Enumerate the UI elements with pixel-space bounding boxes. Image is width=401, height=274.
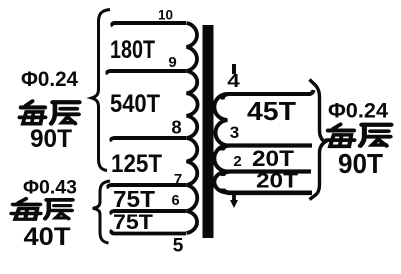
wire terminal 1 (bottom line) (223, 189, 312, 193)
wire tap 9 (107, 71, 186, 74)
winding N1 coil scallops (sections 180T/540T/125T/75T/75T) (187, 23, 198, 233)
wire tap 7 (108, 185, 186, 188)
svg-text:10: 10 (158, 8, 173, 23)
svg-text:20T: 20T (256, 170, 298, 193)
wire tap 6 (111, 211, 186, 214)
svg-text:9: 9 (168, 54, 176, 71)
wire tap 8 (111, 138, 186, 141)
svg-text:180T: 180T (110, 36, 155, 64)
spec text mei-ceng (left top) (19, 101, 45, 124)
spec text mei-ceng (left bottom) (12, 199, 41, 220)
svg-text:4: 4 (227, 71, 240, 91)
svg-text:40T: 40T (24, 223, 71, 251)
terminal 1 lead down with arrowhead (232, 194, 236, 201)
svg-text:8: 8 (171, 117, 181, 138)
svg-text:90T: 90T (338, 148, 383, 179)
spec text mei-ceng (right) (327, 124, 355, 146)
wire terminal 4 (top line) (223, 90, 314, 100)
svg-text:2: 2 (233, 153, 241, 170)
wire tap 2 (223, 172, 311, 177)
svg-text:125T: 125T (111, 150, 162, 178)
brace left small (93, 181, 110, 243)
svg-text:Φ0.24: Φ0.24 (21, 68, 78, 91)
svg-text:20T: 20T (252, 146, 295, 171)
wire tap 10 (top line) (112, 23, 186, 26)
svg-text:90T: 90T (30, 125, 72, 153)
svg-text:540T: 540T (110, 90, 160, 118)
svg-text:7: 7 (174, 171, 182, 188)
svg-text:Φ0.24: Φ0.24 (328, 100, 388, 123)
core (laminated core bar) (203, 25, 214, 238)
svg-text:75T: 75T (113, 210, 153, 234)
winding N2 coil scallops (sections 45T/20T/20T) (214, 94, 227, 193)
svg-text:6: 6 (171, 193, 179, 209)
brace left large (92, 10, 111, 171)
svg-text:3: 3 (230, 123, 239, 142)
svg-text:5: 5 (173, 236, 184, 257)
brace right (310, 80, 326, 200)
wire tap 5 (bottom line) (111, 230, 186, 234)
wire tap 3 (223, 146, 313, 151)
svg-text:45T: 45T (247, 96, 296, 126)
svg-text:75T: 75T (113, 186, 156, 212)
terminal 4 lead up (232, 64, 236, 74)
svg-text:Φ0.43: Φ0.43 (23, 178, 77, 199)
